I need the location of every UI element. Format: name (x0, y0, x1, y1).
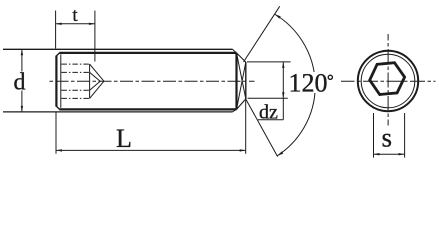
dimension L arrow left (56, 149, 62, 151)
dimension t arrow left (56, 23, 62, 25)
svg-text:dz: dz (259, 101, 278, 123)
dimension t right extension line (94, 11, 96, 62)
end view horizontal center line (341, 80, 436, 82)
end view hex socket (370, 63, 405, 95)
label 120 background (286, 72, 335, 93)
svg-text:L: L (116, 124, 132, 153)
left face chamfer corner top (56, 53, 59, 56)
thread major diameter line top (also d extension line) (3, 48, 233, 50)
end view chamfer circle (361, 54, 415, 108)
120 degree arc arrow bottom (277, 151, 283, 156)
left end chamfer circle line (60, 54, 62, 107)
cup point tip flat (245, 62, 247, 99)
svg-text:s: s (382, 123, 393, 153)
thread runout diagonal top right (233, 49, 237, 53)
dimension t left extension line (55, 11, 57, 49)
dimension L line (56, 149, 246, 151)
dimension d arrow top (21, 49, 23, 55)
hex socket hidden line across-flats top (61, 71, 89, 73)
hex socket hidden line across-corners top (61, 63, 89, 65)
cone chamfer cross diagonal 1 (237, 53, 246, 99)
dimension d arrow bottom (21, 106, 23, 112)
dimension dz arrow bottom (282, 92, 284, 98)
hex socket bottom line (89, 64, 91, 98)
screw left end face (55, 56, 57, 107)
socket drill cone outer upper (90, 64, 104, 81)
screw body bottom edge (59, 108, 236, 110)
120 degree angle bottom leg (246, 99, 278, 157)
cone point top edge (237, 53, 246, 62)
dimension s arrow left (374, 153, 380, 155)
hex socket hidden line across-flats bottom (61, 89, 89, 91)
dimension s right extension line (404, 113, 406, 158)
cone point bottom edge (237, 99, 246, 110)
dimension t arrow right (89, 23, 95, 25)
left face chamfer corner bottom (56, 106, 59, 109)
svg-text:120: 120 (289, 68, 328, 97)
side view center line (49, 80, 255, 82)
label d background (12, 72, 27, 91)
hex socket hidden line across-corners bottom (61, 97, 89, 99)
thread major diameter line bottom (also d extension line) (3, 111, 233, 113)
dimension dz label underline (258, 119, 284, 121)
svg-text:d: d (14, 70, 26, 96)
120 degree arc arrow top (275, 14, 281, 19)
dimension dz bottom extension line (248, 97, 288, 99)
end view vertical center line (387, 34, 389, 126)
dimension t line (56, 23, 95, 25)
120 degree angle top leg (244, 6, 280, 62)
dimension dz arrow top (282, 62, 284, 68)
dimension dz top extension line (247, 61, 291, 63)
dimension dz line with leader to label (282, 62, 284, 120)
dimension s line (374, 153, 405, 155)
dimension L arrow right (240, 149, 246, 151)
right body end line (235, 53, 237, 110)
120 degree dimension arc (275, 14, 316, 156)
svg-text:t: t (72, 5, 78, 26)
socket drill cone inner upper (90, 72, 101, 81)
end view outer circle (358, 51, 418, 111)
socket drill cone outer lower (90, 81, 104, 98)
dimension s arrow right (399, 153, 405, 155)
dimension L right extension line (245, 100, 247, 154)
dimension d line (21, 49, 23, 112)
screw body top edge (59, 52, 236, 54)
cone chamfer cross diagonal 2 (237, 62, 246, 109)
socket drill cone inner lower (90, 81, 101, 90)
thread runout diagonal bottom right (233, 109, 237, 112)
dimension L left extension line (55, 112, 57, 154)
dimension s left extension line (373, 113, 375, 158)
